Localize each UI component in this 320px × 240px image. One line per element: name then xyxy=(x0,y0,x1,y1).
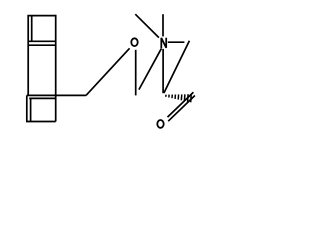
double bond inner horizontal bottom xyxy=(29,97,56,99)
bond N methyl up xyxy=(162,14,164,36)
double bond inner vertical bottom xyxy=(30,98,32,121)
bond N right xyxy=(168,41,185,43)
bond diagonal right down xyxy=(164,41,190,93)
bond N methyl upleft xyxy=(135,14,159,37)
bond N to CH2 left xyxy=(139,48,162,89)
atom label O ether xyxy=(131,38,137,46)
ring divider xyxy=(28,44,56,46)
bond N down xyxy=(162,49,164,93)
carbonyl double bond xyxy=(168,92,194,117)
double bond inner horizontal top xyxy=(28,40,56,42)
double bond inner vertical top xyxy=(31,16,33,42)
bond O down xyxy=(135,50,137,96)
atom label O carbonyl xyxy=(157,120,163,128)
ring bottom square left+bottom xyxy=(27,95,56,121)
ring right edge xyxy=(55,15,57,122)
hashed wedge bond xyxy=(166,94,191,102)
ring top+left outline xyxy=(28,16,56,96)
atom label N xyxy=(161,38,166,48)
bond diagonal to O xyxy=(86,48,130,95)
molecule skeletal formula xyxy=(0,0,218,143)
bond long horizontal xyxy=(27,94,86,96)
